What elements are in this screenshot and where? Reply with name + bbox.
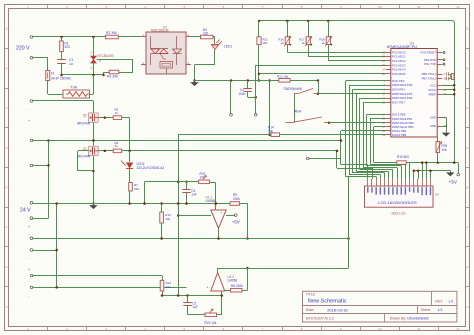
svg-text:10: 10 [378,327,382,331]
svg-text:E: E [467,186,469,190]
svg-text:Sheet:: Sheet: [421,308,431,312]
svg-text:IRFZ44N: IRFZ44N [77,155,91,159]
svg-text:H: H [5,305,7,309]
svg-text:LED1: LED1 [224,45,232,49]
svg-text:DIG13 PB5: DIG13 PB5 [392,133,407,137]
svg-text:PD1 TXD: PD1 TXD [424,62,436,66]
svg-text:GND: GND [430,124,436,128]
svg-text:BT138-600: BT138-600 [98,54,114,58]
svg-text:220 V: 220 V [16,46,30,52]
svg-text:10: 10 [378,5,382,9]
svg-text:10k: 10k [262,41,267,45]
svg-text:H: H [466,305,468,309]
svg-text:R3 390: R3 390 [107,75,118,79]
svg-text:1uF: 1uF [192,305,197,309]
svg-text:PD0 RXD: PD0 RXD [424,58,436,62]
svg-text:220k: 220k [233,197,240,201]
svg-text:1u: 1u [69,62,73,66]
svg-text:RV2 10k: RV2 10k [205,321,217,325]
svg-text:PB6 XTAL1: PB6 XTAL1 [422,72,437,76]
svg-text:11: 11 [417,327,420,331]
svg-text:New Schematic: New Schematic [308,299,347,305]
svg-text:+: + [207,286,209,290]
svg-text:C: C [466,106,468,110]
svg-text:333-2UYC/S530-A3: 333-2UYC/S530-A3 [137,166,165,170]
svg-text:F: F [6,225,8,229]
svg-text:Q2: Q2 [83,114,87,118]
svg-text:AVCC: AVCC [428,88,436,92]
svg-text:11: 11 [417,5,420,9]
svg-text:E: E [6,186,8,190]
svg-text:ФЕН: ФЕН [294,110,302,114]
svg-text:F1: F1 [51,72,55,76]
svg-text:PC5 ADC5: PC5 ADC5 [392,72,406,76]
svg-text:D: D [466,146,468,150]
svg-text:+: + [28,119,30,123]
svg-text:B: B [467,66,469,70]
svg-text:2A 3F 250VAC: 2A 3F 250VAC [51,76,72,80]
svg-text:+: + [28,268,30,272]
svg-text:R8 220k: R8 220k [231,284,243,288]
svg-text:ПАЯЛЬНИК: ПАЯЛЬНИК [284,87,302,91]
svg-text:220: 220 [134,187,139,191]
svg-text:10k: 10k [442,148,447,152]
svg-text:EASYEDA V5.3.2: EASYEDA V5.3.2 [306,316,334,320]
svg-text:TITLE:: TITLE: [306,293,316,297]
svg-text:10k: 10k [200,176,205,180]
svg-text:1k: 1k [281,41,285,45]
svg-text:2018-03-16: 2018-03-16 [327,307,348,312]
svg-text:1k: 1k [322,41,326,45]
svg-text:+5V: +5V [449,180,458,185]
svg-text:D: D [5,146,7,150]
svg-text:1k: 1k [302,41,306,45]
svg-text:A: A [6,27,8,31]
svg-text:+5V: +5V [232,220,240,225]
svg-text:12: 12 [456,5,460,9]
svg-text:ТЭН: ТЭН [70,85,77,89]
svg-text:PB7 XTAL2: PB7 XTAL2 [422,77,437,81]
svg-text:MOC3061M: MOC3061M [151,29,169,33]
svg-text:220: 220 [203,31,208,35]
svg-text:VCC: VCC [430,83,436,87]
svg-text:Drawn By:: Drawn By: [390,316,407,320]
svg-text:GND: GND [430,116,436,120]
svg-text:1.0: 1.0 [448,299,453,303]
svg-text:DIG7 PD7: DIG7 PD7 [392,100,405,104]
svg-text:220: 220 [65,45,70,49]
svg-text:Date:: Date: [306,308,315,312]
svg-text:F: F [467,225,469,229]
svg-text:R15 10k: R15 10k [277,74,289,78]
svg-text:10k: 10k [165,217,170,221]
svg-text:R2 390: R2 390 [106,31,117,35]
svg-text:1/1: 1/1 [438,308,443,312]
svg-text:+: + [221,211,223,215]
svg-text:100n: 100n [238,92,245,96]
svg-text:24 V: 24 V [20,208,31,214]
svg-text:Ubuntufan89: Ubuntufan89 [407,317,429,321]
svg-text:10k: 10k [268,129,273,133]
svg-text:LM058: LM058 [206,199,216,203]
svg-text:LM058: LM058 [228,279,238,283]
svg-text:ATMEGA328P-PU: ATMEGA328P-PU [387,45,418,49]
svg-text:12: 12 [456,327,460,331]
svg-text:REV: REV [435,299,443,303]
svg-text:1uF: 1uF [191,192,196,196]
svg-text:U4: U4 [435,193,439,197]
svg-text:-: - [213,212,214,216]
svg-text:R19 500: R19 500 [397,155,409,159]
svg-text:PC6 RESET: PC6 RESET [420,51,436,55]
svg-text:+: + [28,225,30,229]
svg-text:AREF: AREF [429,92,437,96]
svg-text:LCD-16X2NOHOLES: LCD-16X2NOHOLES [378,200,417,205]
svg-text:A: A [467,27,469,31]
svg-text:B: B [6,66,8,70]
svg-text:16x2 LCD: 16x2 LCD [391,211,406,215]
svg-text:IRFZ44N: IRFZ44N [77,121,91,125]
svg-text:C: C [5,106,7,110]
svg-text:10k: 10k [166,285,171,289]
